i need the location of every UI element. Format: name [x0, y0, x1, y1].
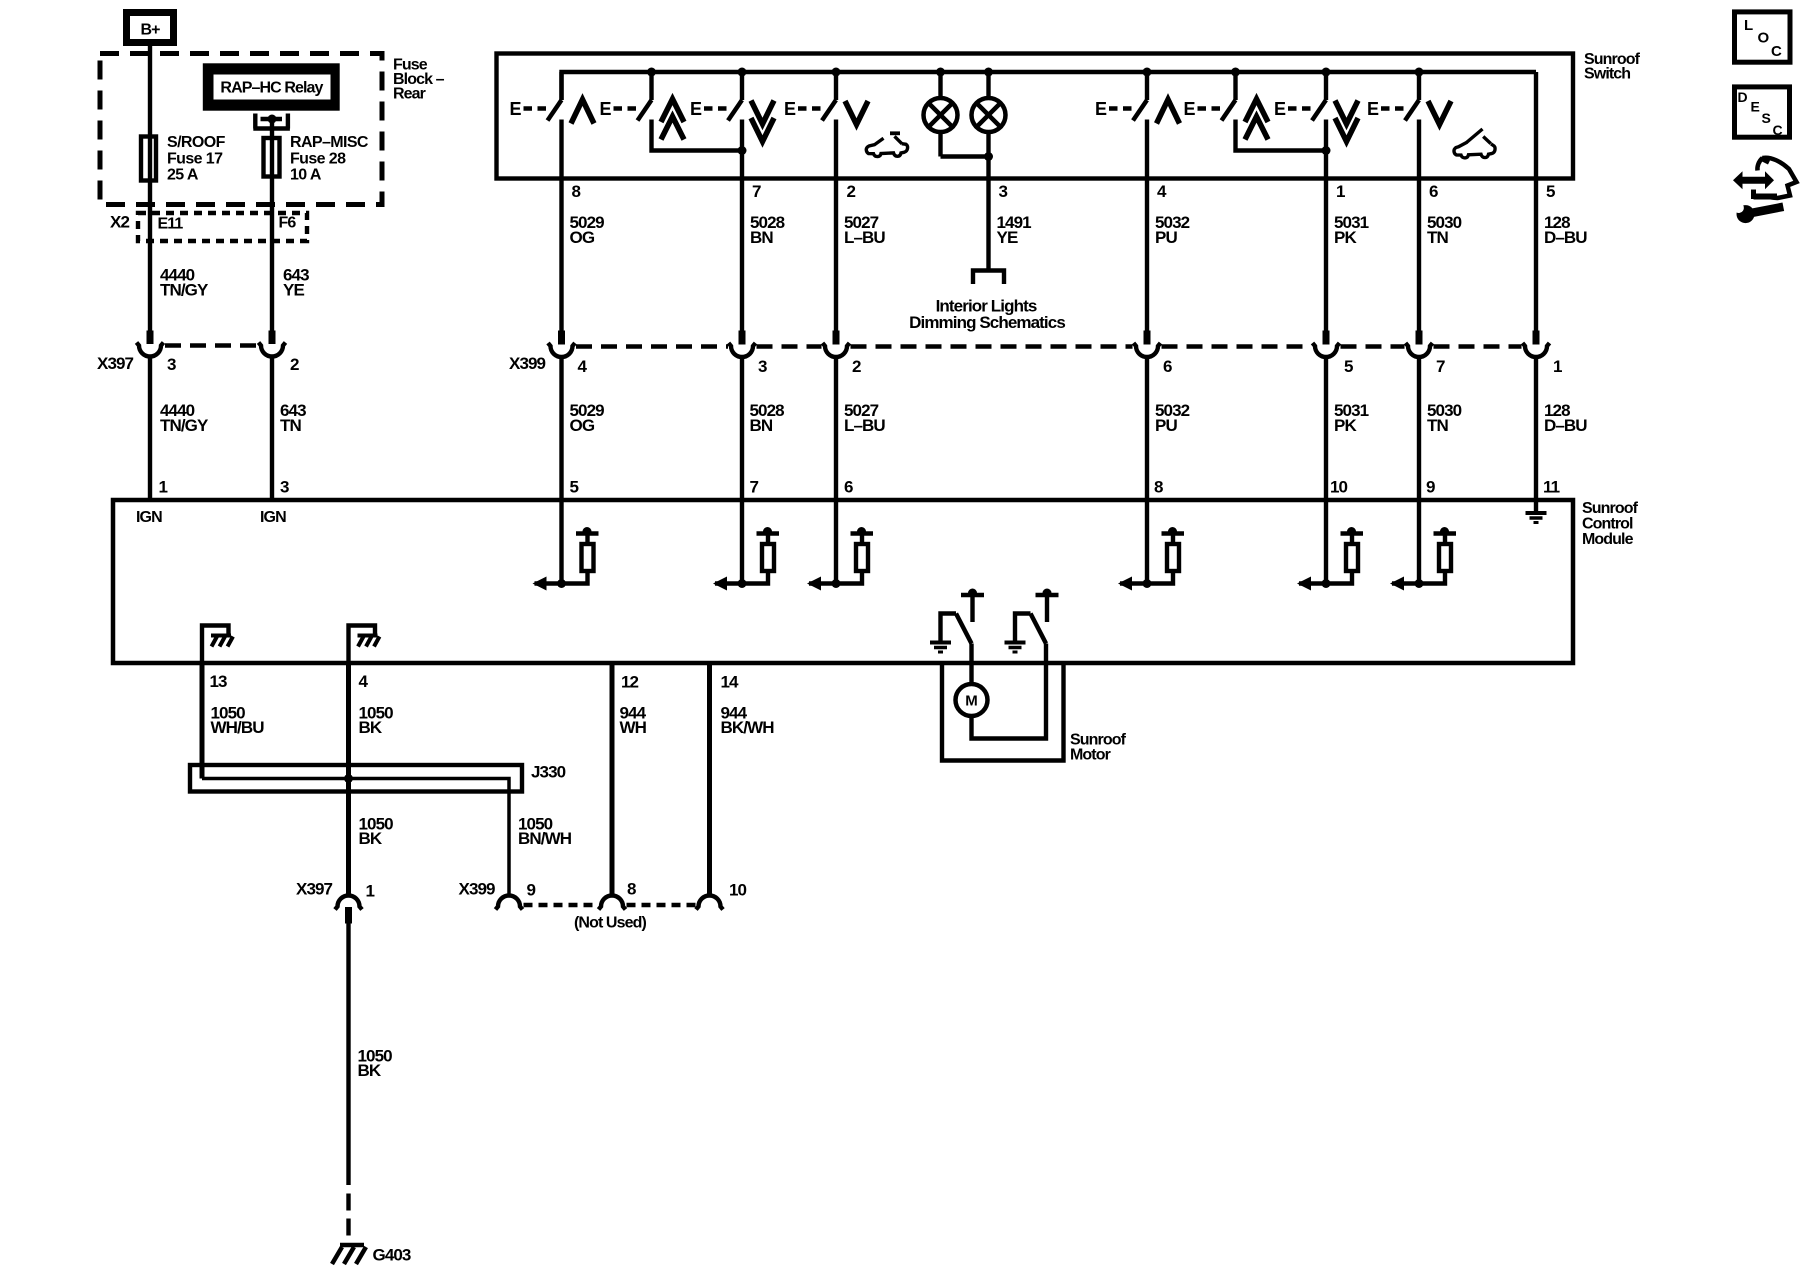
wire pin 6: [1417, 120, 1421, 331]
svg-text:6: 6: [1163, 357, 1172, 376]
wires X399 to module: [562, 357, 1537, 500]
svg-text:8: 8: [627, 880, 636, 899]
connector X399 pin 3: [729, 331, 756, 358]
input sense resistor motif pin 5: [533, 500, 599, 591]
node relay output: [268, 115, 277, 124]
svg-text:1: 1: [1553, 357, 1562, 376]
svg-text:1: 1: [1336, 182, 1345, 201]
wire label 643 YE: [283, 266, 309, 300]
svg-text:OG: OG: [570, 228, 595, 247]
wire relay to fuse 28: [270, 119, 274, 331]
svg-text:4: 4: [1157, 182, 1167, 201]
ground pin 11 internal: [1534, 500, 1538, 512]
svg-text:10: 10: [1330, 478, 1348, 497]
ground pin 13 internal: [202, 626, 229, 664]
svg-text:1: 1: [366, 882, 375, 901]
connector X397 pin 3: [137, 331, 164, 501]
wire B+ to fuse 17: [148, 46, 152, 331]
svg-text:3: 3: [999, 182, 1008, 201]
switch slide-open contact right: [1184, 72, 1236, 121]
motor driver contact B: [1015, 614, 1031, 642]
wire pin 2: [834, 120, 838, 331]
switch vent-down contact right (pin 6): [1367, 72, 1419, 121]
node pin7 junction: [738, 146, 747, 155]
switch slide-open contact: [600, 72, 652, 121]
wire pin 1: [1324, 120, 1328, 331]
svg-text:C: C: [1771, 43, 1782, 60]
svg-text:D: D: [1738, 89, 1748, 105]
node pin1 junction: [1322, 146, 1331, 155]
svg-text:X397: X397: [97, 354, 134, 373]
svg-text:BN: BN: [750, 416, 773, 435]
svg-text:IGN: IGN: [136, 509, 162, 526]
svg-text:TN: TN: [1427, 416, 1448, 435]
svg-text:4: 4: [578, 357, 588, 376]
connector X399 pin 9 bottom: [496, 896, 523, 910]
wire pin 13: [200, 663, 205, 779]
svg-text:YE: YE: [997, 228, 1018, 247]
svg-text:S: S: [1762, 110, 1771, 126]
svg-text:8: 8: [572, 182, 581, 201]
svg-text:6: 6: [1429, 182, 1438, 201]
svg-text:PK: PK: [1334, 416, 1357, 435]
navigate arrows icon: [1733, 158, 1797, 199]
svg-text:4: 4: [359, 672, 369, 691]
svg-text:BK/WH: BK/WH: [721, 718, 775, 737]
wire dashed X397 link: [165, 343, 257, 348]
lamp left: [924, 74, 958, 157]
wire label 643 TN: [280, 401, 306, 435]
DESC legend box: [1735, 87, 1790, 138]
svg-text:TN/GY: TN/GY: [160, 281, 209, 300]
svg-text:2: 2: [290, 355, 299, 374]
car slide icon right: [1454, 129, 1495, 158]
wire switch supply bus: [562, 72, 1537, 100]
svg-text:BK: BK: [359, 718, 383, 737]
input sense resistor motif pin 6: [807, 500, 873, 591]
wire labels top row: [570, 213, 1588, 247]
svg-text:Sunroof: Sunroof: [1582, 500, 1639, 517]
module pin numbers: [570, 478, 1560, 497]
svg-text:L–BU: L–BU: [844, 416, 885, 435]
connector X399 pin 2: [823, 331, 850, 358]
svg-text:Dimming Schematics: Dimming Schematics: [909, 313, 1065, 332]
fuse F17 S/ROOF Fuse 17 25A: [141, 137, 156, 181]
svg-text:RAP–MISC: RAP–MISC: [290, 134, 369, 151]
svg-text:9: 9: [527, 881, 536, 900]
svg-text:L–BU: L–BU: [844, 228, 885, 247]
svg-text:B+: B+: [140, 22, 160, 39]
svg-text:(Not Used): (Not Used): [574, 915, 646, 932]
switch slide-close contact (pin 7): [690, 72, 742, 121]
svg-text:3: 3: [167, 355, 176, 374]
svg-text:E: E: [1751, 99, 1760, 115]
X399 labels: [509, 354, 1562, 376]
motor driver contact A: [941, 614, 957, 642]
wire pin 4: [1145, 120, 1149, 331]
wire slide-open to pin 1: [1236, 120, 1327, 151]
wire pin 14: [707, 663, 712, 895]
connector X399 pin 5: [1313, 331, 1340, 358]
input sense resistor motif pin 9: [1390, 500, 1456, 591]
ground G403: [332, 1245, 366, 1264]
svg-text:25 A: 25 A: [167, 167, 199, 184]
relay socket bracket: [253, 114, 290, 129]
wire lamp bottoms to pin 3: [941, 157, 989, 271]
svg-text:13: 13: [210, 672, 228, 691]
wire pin 7: [740, 120, 744, 331]
svg-text:PU: PU: [1155, 228, 1177, 247]
svg-text:F6: F6: [279, 215, 297, 232]
svg-text:O: O: [1758, 30, 1770, 47]
sunroof motor outline box: [942, 663, 1064, 761]
fuse F28 RAP-MISC Fuse 28 10A: [264, 138, 280, 177]
wire pin 4: [346, 663, 351, 896]
wire labels bottom row 1: [211, 704, 775, 738]
svg-text:5: 5: [1344, 357, 1353, 376]
input sense resistor motif pin 7: [713, 500, 779, 591]
svg-text:8: 8: [1154, 478, 1163, 497]
svg-text:G403: G403: [373, 1246, 411, 1265]
wire dashed X399 bottom link: [524, 903, 696, 908]
svg-text:3: 3: [280, 478, 289, 497]
connector X399 pin 1: [1523, 331, 1550, 358]
svg-text:7: 7: [750, 478, 759, 497]
svg-text:Fuse 17: Fuse 17: [167, 150, 223, 167]
connector X2 dashed box: [138, 213, 307, 241]
svg-text:12: 12: [621, 673, 639, 692]
svg-text:7: 7: [1436, 357, 1445, 376]
relay U1 RAP-HC Relay: [205, 66, 338, 109]
svg-text:5: 5: [570, 478, 579, 497]
svg-text:X2: X2: [110, 213, 129, 232]
wire labels below splice: [359, 815, 572, 849]
wire contact B to motor loop: [972, 644, 1047, 739]
connector X397 pin 2: [259, 331, 286, 501]
wire label 4440 TN/GY below connector: [160, 401, 209, 435]
svg-text:X397: X397: [296, 880, 333, 899]
svg-text:5: 5: [1546, 182, 1555, 201]
svg-text:11: 11: [1543, 478, 1560, 497]
svg-text:Fuse 28: Fuse 28: [290, 150, 346, 167]
svg-text:10: 10: [729, 881, 747, 900]
car tilt icon left: [866, 133, 907, 156]
svg-text:1: 1: [159, 478, 168, 497]
switch pin numbers: [572, 182, 1556, 201]
wire 1050 BK to ground: [346, 924, 350, 1186]
svg-text:M: M: [965, 693, 978, 710]
svg-text:PK: PK: [1334, 228, 1357, 247]
input sense resistor motif pin 10: [1297, 500, 1363, 591]
fuse block rear dashed box: [100, 54, 382, 205]
connector X397 pin 1 bottom: [335, 896, 362, 910]
svg-text:TN: TN: [1427, 228, 1448, 247]
wire pin 5: [1534, 72, 1538, 331]
svg-text:OG: OG: [570, 416, 595, 435]
svg-text:BN: BN: [750, 228, 773, 247]
ground pin 4 internal: [349, 626, 376, 664]
svg-text:3: 3: [758, 357, 767, 376]
wire label 4440 TN/GY: [160, 266, 209, 300]
wire contact A to motor: [969, 644, 973, 685]
svg-text:Motor: Motor: [1070, 747, 1111, 764]
svg-text:BN/WH: BN/WH: [518, 829, 572, 848]
svg-text:2: 2: [852, 357, 861, 376]
switch vent-up contact right (pin 4): [1095, 72, 1147, 121]
switch vent-down contact (pin 2): [784, 72, 836, 121]
module bottom pin labels: [210, 672, 740, 692]
sunroof motor M: [956, 684, 988, 716]
svg-text:YE: YE: [283, 281, 304, 300]
connector X399 pin 7: [1406, 331, 1433, 358]
connector X399 pin 6: [1134, 331, 1161, 358]
lamp right: [972, 74, 1006, 157]
connector X399 pin 4: [548, 331, 575, 358]
svg-text:D–BU: D–BU: [1544, 228, 1587, 247]
svg-text:BK: BK: [359, 829, 383, 848]
svg-text:X399: X399: [509, 354, 546, 373]
svg-text:BK: BK: [358, 1061, 382, 1080]
connector X399 pin 10 bottom: [696, 896, 723, 910]
svg-text:J330: J330: [531, 763, 566, 782]
splice J330: [190, 765, 522, 792]
sunroof switch box S1: [497, 54, 1574, 179]
wire dashed X399 link: [576, 344, 1522, 349]
svg-text:D–BU: D–BU: [1544, 416, 1587, 435]
svg-text:IGN: IGN: [260, 509, 286, 526]
switch vent-up contact (pin 8): [510, 72, 562, 121]
wire labels second row: [570, 401, 1588, 435]
LOC legend box: [1735, 12, 1791, 62]
svg-text:TN/GY: TN/GY: [160, 416, 209, 435]
svg-text:6: 6: [844, 478, 853, 497]
svg-text:10 A: 10 A: [290, 167, 322, 184]
svg-text:X399: X399: [459, 880, 496, 899]
svg-text:S/ROOF: S/ROOF: [167, 134, 226, 151]
fuse block label: [393, 57, 445, 103]
svg-text:14: 14: [721, 673, 740, 692]
off-page connector to interior lights: [973, 271, 1004, 285]
svg-text:RAP–HC Relay: RAP–HC Relay: [220, 80, 323, 97]
wire pin 8: [559, 120, 563, 331]
svg-text:2: 2: [847, 182, 856, 201]
wire slide-open to pin 7: [652, 120, 743, 151]
svg-text:9: 9: [1426, 478, 1435, 497]
wrench icon: [1729, 191, 1785, 225]
svg-text:Control: Control: [1582, 516, 1633, 533]
battery feed B+: [127, 13, 174, 43]
node bus junctions: [647, 68, 1424, 77]
svg-text:WH/BU: WH/BU: [211, 718, 265, 737]
sunroof control module box: [113, 500, 1573, 663]
wire pin 12: [610, 663, 615, 895]
svg-text:Switch: Switch: [1584, 66, 1630, 83]
svg-text:Module: Module: [1582, 531, 1634, 548]
svg-text:E11: E11: [158, 216, 184, 233]
svg-text:WH: WH: [620, 718, 647, 737]
svg-text:L: L: [1744, 17, 1753, 34]
switch slide-close contact right (pin 1): [1274, 72, 1326, 121]
svg-text:TN: TN: [280, 416, 301, 435]
svg-text:C: C: [1773, 122, 1783, 138]
svg-text:Rear: Rear: [393, 86, 426, 103]
input sense resistor motif pin 8: [1118, 500, 1184, 591]
svg-text:PU: PU: [1155, 416, 1177, 435]
svg-text:7: 7: [752, 182, 761, 201]
connector X399 pin 8 bottom: [599, 896, 626, 910]
